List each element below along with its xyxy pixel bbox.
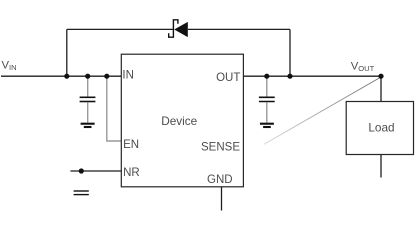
svg-text:Load: Load (368, 121, 394, 135)
junction dot output at diode branch (287, 74, 292, 79)
wire output rail OUT pin to VOUT (243, 75, 381, 77)
junction dot input at diode branch (64, 74, 69, 79)
capacitor CIN top lead (gray) (87, 76, 89, 97)
wire input rail VIN to IN pin (1, 75, 121, 77)
ground under COUT (260, 123, 274, 125)
svg-text:Device: Device (161, 114, 197, 128)
capacitor CIN plates (80, 96, 96, 98)
capacitor COUT top lead (gray) (266, 76, 268, 97)
device U1 box (121, 54, 243, 187)
capacitor CIN bottom lead (gray) (87, 102, 89, 122)
wire top horizontal left of diode (67, 28, 174, 30)
wire riser to diode (left) (66, 29, 68, 76)
junction dot output at COUT branch (264, 74, 269, 79)
wire NR pin (70, 170, 121, 172)
capacitor COUT bottom lead (gray) (266, 102, 268, 122)
diode D1 anode triangle (174, 22, 188, 37)
svg-text:IN: IN (122, 70, 133, 82)
sense connection line (fading diagonal) (264, 77, 381, 144)
junction dot input at EN branch (104, 74, 109, 79)
wire EN branch vertical (gray) (107, 76, 121, 141)
svg-text:GND: GND (207, 174, 233, 186)
junction dot VOUT (378, 74, 383, 79)
wire VOUT to load (380, 76, 382, 101)
junction dot NR (79, 168, 84, 173)
wire riser from diode to output rail (right) (289, 29, 291, 76)
svg-text:SENSE: SENSE (201, 142, 240, 154)
capacitor CNR plates (floating) (74, 190, 89, 192)
load box (346, 102, 413, 155)
wire load to ground (380, 155, 382, 178)
ground under CIN (81, 123, 95, 125)
wire top horizontal right of diode (188, 28, 290, 30)
svg-text:EN: EN (123, 139, 139, 151)
capacitor COUT plates (259, 96, 275, 98)
diode D1 schottky cathode bar (169, 20, 178, 37)
wire GND pin down (221, 187, 223, 211)
svg-text:NR: NR (123, 167, 140, 179)
junction dot input at CIN branch (85, 74, 90, 79)
svg-text:OUT: OUT (216, 72, 240, 84)
